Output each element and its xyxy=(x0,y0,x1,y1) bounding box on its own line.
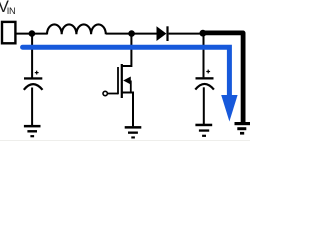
transistor Q1 channel bar xyxy=(121,64,123,98)
svg-text:IN: IN xyxy=(7,6,16,16)
capacitor C1 plus sign xyxy=(35,71,39,75)
input terminal box xyxy=(2,22,15,43)
inductor L1 xyxy=(47,24,106,34)
wire: output junction down to C2 xyxy=(203,34,205,78)
wire: box to inductor (top rail left) xyxy=(16,33,48,35)
faint page rule at bottom edge xyxy=(0,139,250,142)
node: switch node junction xyxy=(128,30,135,37)
capacitor C2 plus sign xyxy=(206,70,210,74)
wire: blue arrowhead xyxy=(221,95,237,122)
transistor Q1 gate circle xyxy=(103,91,107,95)
wire: C2 to ground xyxy=(203,87,205,124)
wire: diode to output junction xyxy=(169,33,204,35)
wire: blue current path xyxy=(23,47,230,95)
transistor Q1 gate bar xyxy=(117,67,119,94)
transistor Q1 source stub xyxy=(122,93,133,127)
transistor Q1 body arrow xyxy=(123,77,131,85)
ground: C1 xyxy=(24,125,41,137)
wire: thick output rail to ground xyxy=(203,33,243,123)
node: junction VIN xyxy=(29,30,36,37)
ground: Q1 source xyxy=(125,126,142,138)
ground: output (bold) xyxy=(235,122,252,135)
diode D1 anode-cathode xyxy=(157,26,167,41)
capacitor C2 curved plate xyxy=(195,84,214,90)
wire: switch junction down to Q1 drain xyxy=(122,34,132,66)
wire: VIN junction down to C1 xyxy=(31,34,33,78)
capacitor C1 curved plate xyxy=(24,84,43,90)
capacitor C1 top plate xyxy=(24,77,42,79)
label VIN xyxy=(0,0,15,16)
node: output junction xyxy=(200,30,207,37)
transistor Q1 gate wire xyxy=(107,93,118,95)
capacitor C2 top plate xyxy=(196,77,214,79)
wire: inductor to diode xyxy=(106,33,157,35)
wire: C1 to ground xyxy=(31,88,33,126)
ground: C2 xyxy=(195,124,212,137)
